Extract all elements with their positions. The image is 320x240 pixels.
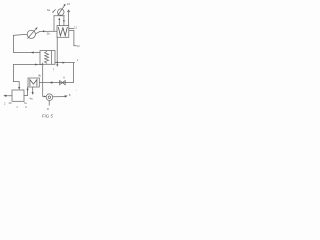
arrowhead pointing right xyxy=(63,62,66,64)
svg-text:8: 8 xyxy=(69,93,71,97)
heater terminals right xyxy=(69,27,73,29)
svg-text:7: 7 xyxy=(53,68,55,72)
valve V1 bowtie xyxy=(60,81,63,85)
arrowhead pointing left on return wire xyxy=(31,51,34,53)
junction dot xyxy=(56,62,58,64)
svg-text:4a: 4a xyxy=(29,96,33,100)
small arrow tick at pump inlet xyxy=(44,96,46,98)
tank box1 xyxy=(12,90,24,101)
baffle line inside box2 xyxy=(50,51,52,65)
wire return from exchanger box2 to left bracket xyxy=(13,52,40,54)
terminal wire down xyxy=(74,31,76,46)
wire up from heater to expansion line with up arrow xyxy=(58,18,60,25)
svg-text:16: 16 xyxy=(67,2,71,6)
arrowhead pointing left on valve line xyxy=(50,81,53,83)
wire heater box down to junction xyxy=(56,37,58,62)
wire center vertical to pump P1 xyxy=(43,63,46,97)
coil inside box2 xyxy=(45,51,49,63)
pump P1 circle with inner circle xyxy=(46,94,53,101)
wire box2 to junction xyxy=(55,61,57,63)
line under expansion circle xyxy=(54,15,65,17)
svg-text:6: 6 xyxy=(25,105,27,109)
svg-text:a: a xyxy=(47,107,49,111)
motor box M xyxy=(28,78,39,87)
expansion device E1 circle on line xyxy=(58,9,64,15)
arrowhead on pump outlet wire xyxy=(43,30,46,32)
svg-text:1: 1 xyxy=(77,58,79,62)
variable arrow of pump P2 xyxy=(28,28,37,38)
heater box U1 with W xyxy=(57,26,69,38)
pump P1 outlet arrow right xyxy=(53,96,65,98)
wire down from expansion line into heater xyxy=(63,16,65,26)
svg-text:2b: 2b xyxy=(47,31,51,35)
wire junction to right corner xyxy=(57,62,74,64)
svg-text:11: 11 xyxy=(74,25,77,29)
motor shaft drain arrow xyxy=(32,87,34,93)
tank outlet arrow left xyxy=(6,95,12,97)
svg-text:FIG 5: FIG 5 xyxy=(42,113,54,118)
pump P2 (circle with variable arrow) xyxy=(27,30,35,38)
svg-text:6a: 6a xyxy=(47,8,51,12)
variable arrow of expansion device xyxy=(58,5,65,16)
wire motor left down to tank xyxy=(24,87,28,96)
wire left bracket bottom xyxy=(13,65,19,90)
arrowhead down on that wire xyxy=(27,89,29,91)
svg-text:1: 1 xyxy=(16,105,18,109)
wire pump P2 outlet to heater box xyxy=(35,31,57,34)
wire expansion line left leg down xyxy=(53,16,55,32)
svg-text:4b: 4b xyxy=(38,74,42,78)
exhaust up arrow at heater right top xyxy=(68,11,70,26)
wire left bracket top (return line to pump P2) xyxy=(13,34,27,52)
pump P1 bottom stub xyxy=(48,101,50,106)
wire valve line xyxy=(39,82,73,84)
speck xyxy=(76,90,77,91)
svg-text:11: 11 xyxy=(77,44,80,48)
svg-text:1b: 1b xyxy=(8,101,12,105)
wire right vertical down xyxy=(72,63,74,83)
heat exchanger box2 xyxy=(40,51,55,65)
svg-text:2: 2 xyxy=(4,101,6,105)
arrowhead into tank box1 xyxy=(18,87,20,89)
svg-text:6: 6 xyxy=(63,75,65,79)
drain arrow below junction xyxy=(56,62,58,64)
wire lower feed with arrow to center vertical xyxy=(13,64,42,66)
